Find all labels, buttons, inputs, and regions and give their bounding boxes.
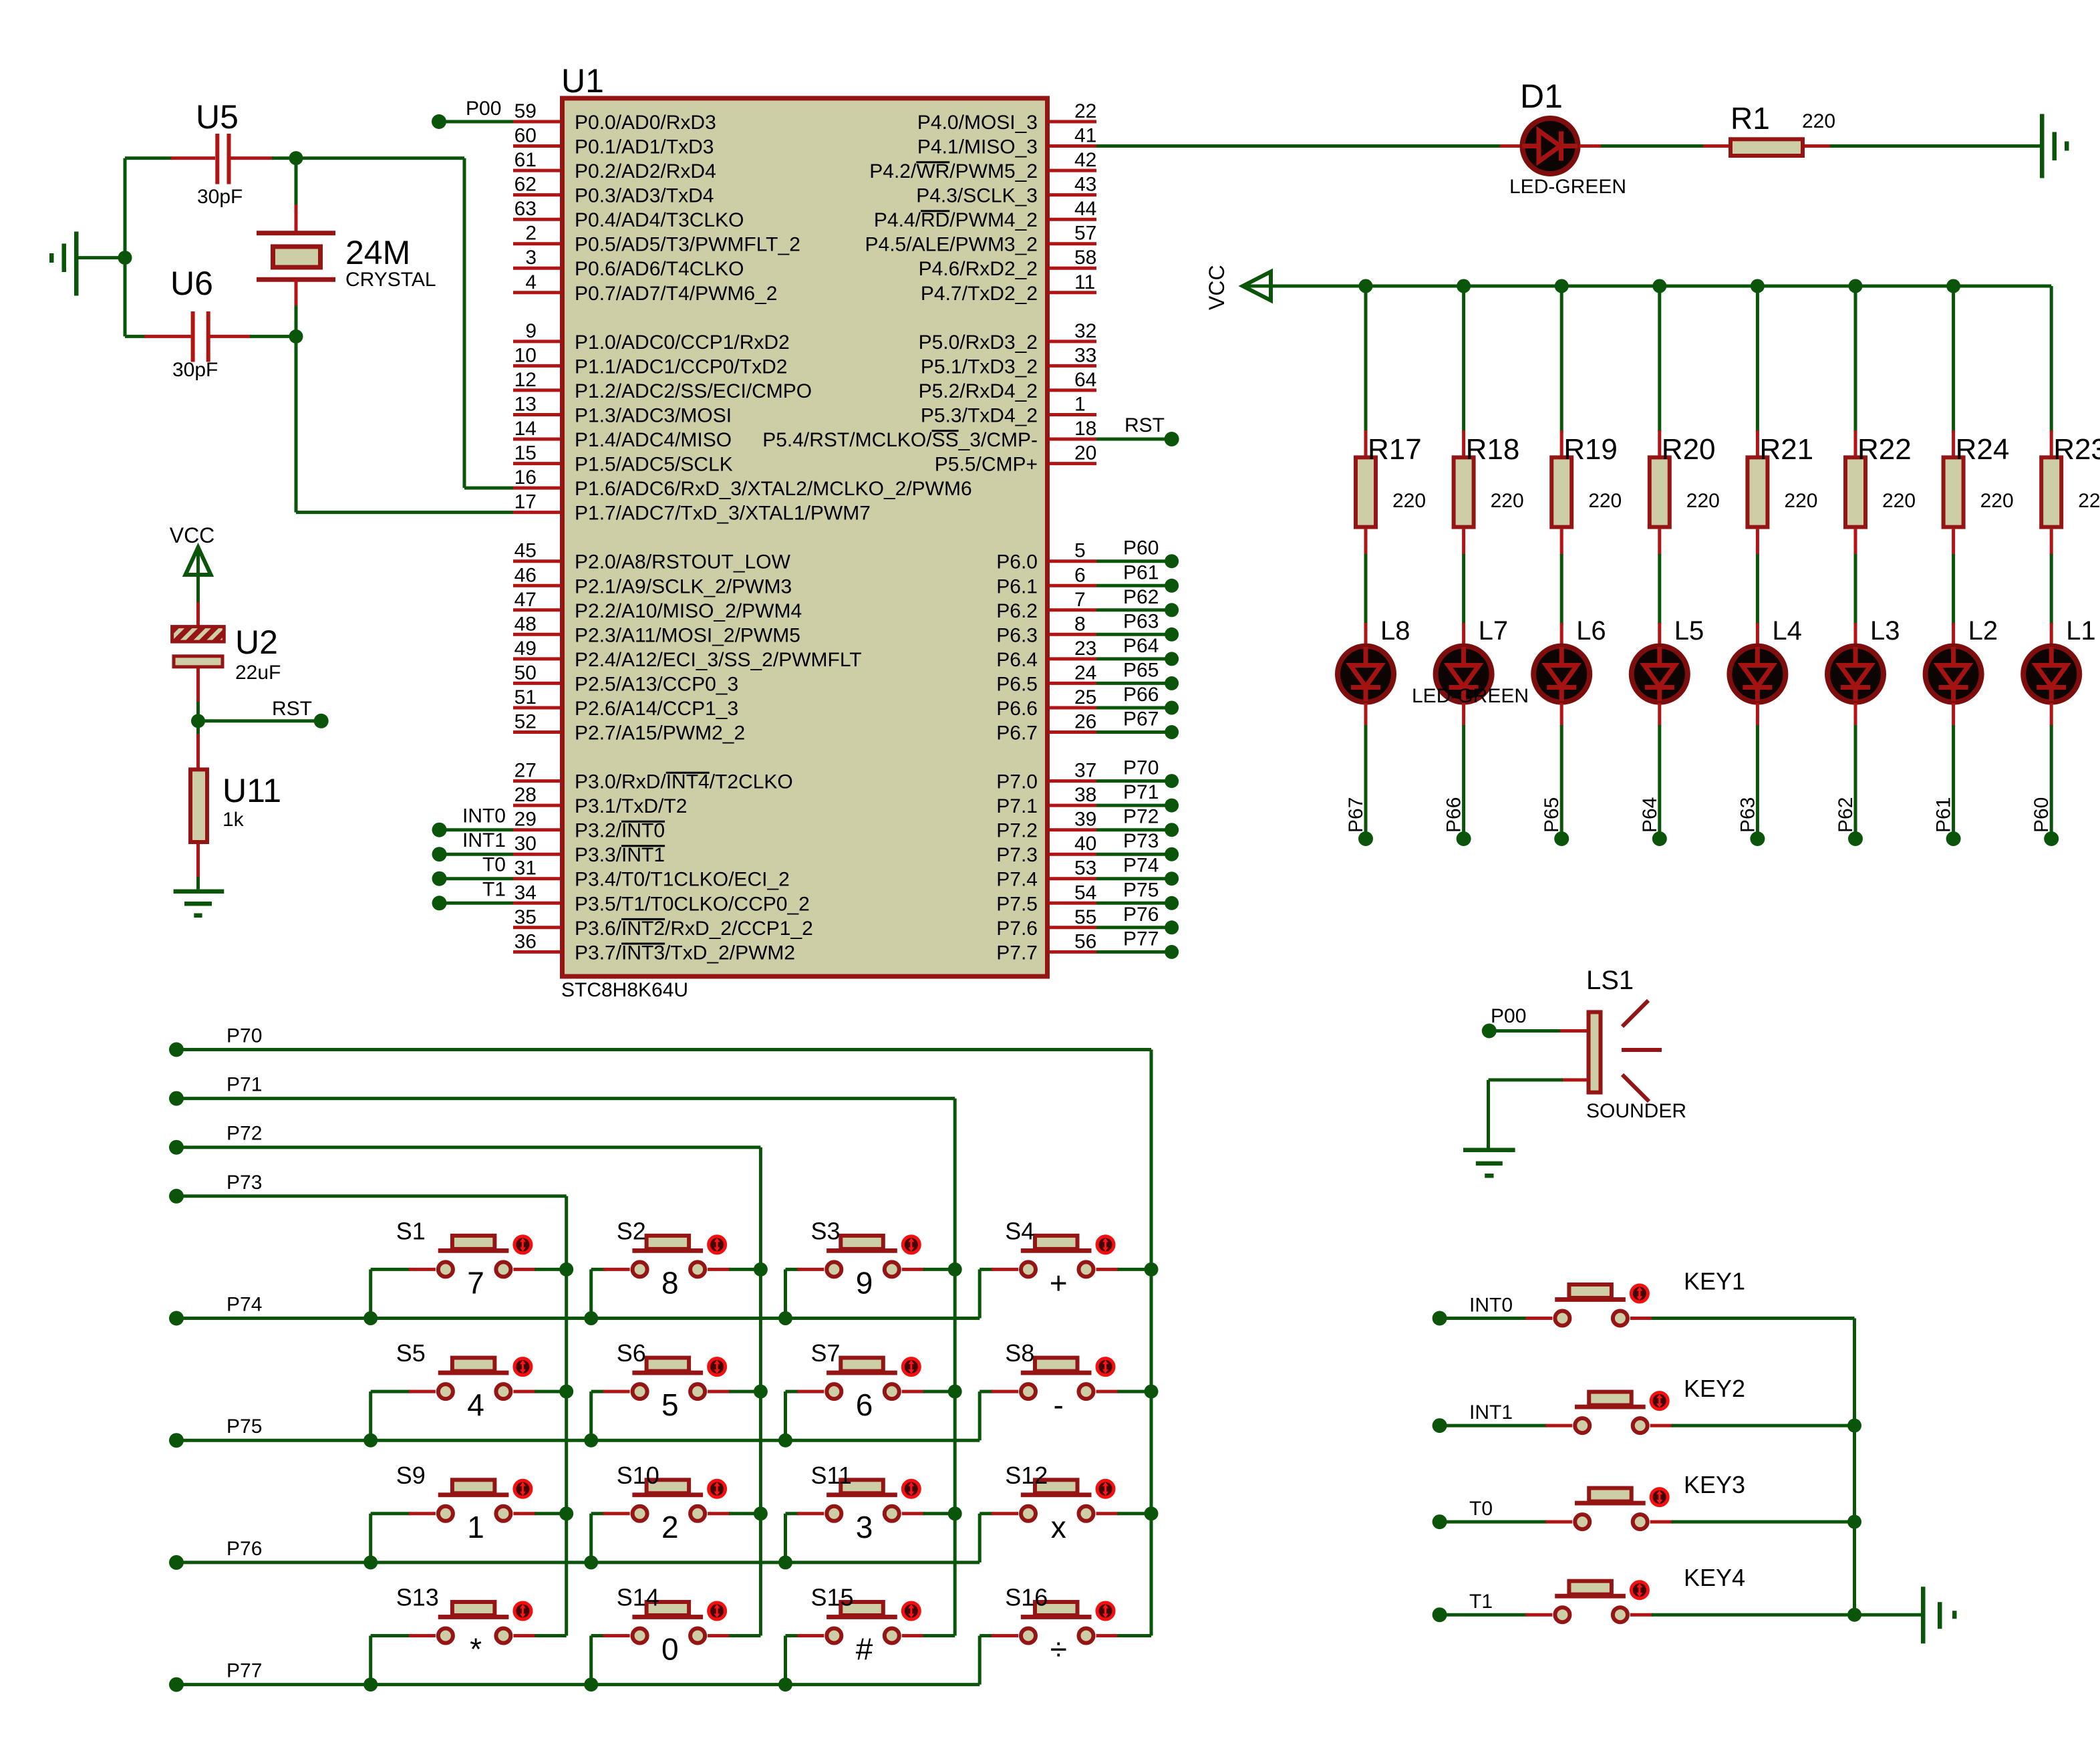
svg-text:P2.7/A15/PWM2_2: P2.7/A15/PWM2_2 bbox=[575, 722, 745, 745]
svg-text:52: 52 bbox=[514, 711, 537, 733]
svg-text:45: 45 bbox=[514, 540, 537, 562]
svg-text:L3: L3 bbox=[1870, 616, 1900, 646]
svg-text:3: 3 bbox=[525, 247, 537, 269]
svg-text:220: 220 bbox=[1882, 490, 1916, 512]
svg-text:STC8H8K64U: STC8H8K64U bbox=[561, 979, 688, 1001]
svg-text:P62: P62 bbox=[1835, 797, 1857, 833]
svg-text:U5: U5 bbox=[196, 98, 239, 136]
svg-text:P1.3/ADC3/MOSI: P1.3/ADC3/MOSI bbox=[575, 405, 732, 427]
svg-text:LED-GREEN: LED-GREEN bbox=[1412, 685, 1529, 707]
svg-text:P3.1/TxD/T2: P3.1/TxD/T2 bbox=[575, 795, 687, 817]
svg-text:220: 220 bbox=[1392, 490, 1426, 512]
svg-text:P3.0/RxD/INT4/T2CLKO: P3.0/RxD/INT4/T2CLKO bbox=[575, 771, 793, 793]
svg-text:P0.7/AD7/T4/PWM6_2: P0.7/AD7/T4/PWM6_2 bbox=[575, 283, 777, 305]
svg-text:P1.7/ADC7/TxD_3/XTAL1/PWM7: P1.7/ADC7/TxD_3/XTAL1/PWM7 bbox=[575, 503, 871, 525]
svg-text:x: x bbox=[1051, 1510, 1066, 1544]
svg-text:P2.5/A13/CCP0_3: P2.5/A13/CCP0_3 bbox=[575, 673, 738, 695]
svg-text:R17: R17 bbox=[1368, 433, 1422, 466]
svg-text:9: 9 bbox=[856, 1265, 873, 1300]
svg-text:220: 220 bbox=[1686, 490, 1720, 512]
svg-text:24: 24 bbox=[1074, 662, 1096, 684]
svg-text:40: 40 bbox=[1074, 833, 1096, 855]
svg-text:S8: S8 bbox=[1005, 1339, 1034, 1367]
svg-text:P1.0/ADC0/CCP1/RxD2: P1.0/ADC0/CCP1/RxD2 bbox=[575, 331, 790, 354]
svg-text:P2.6/A14/CCP1_3: P2.6/A14/CCP1_3 bbox=[575, 698, 738, 720]
svg-text:S15: S15 bbox=[811, 1584, 854, 1611]
svg-text:P7.5: P7.5 bbox=[996, 893, 1038, 915]
svg-text:P0.6/AD6/T4CLKO: P0.6/AD6/T4CLKO bbox=[575, 258, 744, 280]
svg-text:S11: S11 bbox=[811, 1462, 852, 1489]
svg-text:P60: P60 bbox=[1123, 537, 1159, 559]
svg-text:P76: P76 bbox=[1123, 904, 1159, 926]
svg-text:P65: P65 bbox=[1541, 797, 1563, 833]
svg-text:P75: P75 bbox=[227, 1415, 262, 1438]
svg-text:1: 1 bbox=[1074, 394, 1086, 416]
svg-text:47: 47 bbox=[514, 589, 537, 611]
svg-text:P73: P73 bbox=[227, 1172, 262, 1194]
svg-text:P7.1: P7.1 bbox=[996, 795, 1038, 817]
svg-text:P2.2/A10/MISO_2/PWM4: P2.2/A10/MISO_2/PWM4 bbox=[575, 600, 802, 622]
svg-text:R23: R23 bbox=[2053, 433, 2100, 466]
svg-text:43: 43 bbox=[1074, 174, 1096, 196]
svg-text:S6: S6 bbox=[617, 1339, 646, 1367]
svg-text:16: 16 bbox=[514, 466, 537, 489]
svg-text:P63: P63 bbox=[1737, 797, 1759, 833]
svg-text:P61: P61 bbox=[1123, 561, 1159, 583]
svg-text:P5.1/TxD3_2: P5.1/TxD3_2 bbox=[921, 356, 1038, 378]
svg-text:INT0: INT0 bbox=[1469, 1295, 1513, 1317]
svg-text:SOUNDER: SOUNDER bbox=[1586, 1100, 1686, 1122]
svg-text:9: 9 bbox=[525, 320, 537, 342]
svg-text:P73: P73 bbox=[1123, 830, 1159, 852]
svg-text:INT0: INT0 bbox=[462, 805, 506, 827]
svg-text:220: 220 bbox=[1802, 110, 1835, 132]
svg-text:R22: R22 bbox=[1857, 433, 1912, 466]
svg-text:63: 63 bbox=[514, 198, 537, 220]
svg-text:31: 31 bbox=[514, 857, 537, 879]
svg-text:KEY2: KEY2 bbox=[1684, 1375, 1745, 1402]
svg-text:23: 23 bbox=[1074, 638, 1096, 660]
svg-text:P0.5/AD5/T3/PWMFLT_2: P0.5/AD5/T3/PWMFLT_2 bbox=[575, 234, 800, 256]
svg-text:29: 29 bbox=[514, 809, 537, 831]
svg-text:P72: P72 bbox=[1123, 806, 1159, 828]
svg-text:L1: L1 bbox=[2066, 616, 2096, 646]
svg-text:P0.1/AD1/TxD3: P0.1/AD1/TxD3 bbox=[575, 136, 714, 158]
svg-text:2: 2 bbox=[661, 1510, 679, 1544]
svg-text:35: 35 bbox=[514, 906, 537, 928]
svg-text:P6.6: P6.6 bbox=[996, 698, 1038, 720]
svg-text:P5.4/RST/MCLKO/SS_3/CMP-: P5.4/RST/MCLKO/SS_3/CMP- bbox=[762, 429, 1038, 451]
svg-text:P4.1/MISO_3: P4.1/MISO_3 bbox=[917, 136, 1038, 158]
svg-text:51: 51 bbox=[514, 686, 537, 708]
svg-text:P0.2/AD2/RxD4: P0.2/AD2/RxD4 bbox=[575, 160, 716, 182]
svg-text:KEY1: KEY1 bbox=[1684, 1268, 1745, 1295]
svg-text:L6: L6 bbox=[1576, 616, 1606, 646]
svg-text:P7.3: P7.3 bbox=[996, 844, 1038, 866]
svg-text:48: 48 bbox=[514, 613, 537, 635]
svg-text:46: 46 bbox=[514, 564, 537, 586]
svg-text:7: 7 bbox=[467, 1265, 484, 1300]
svg-text:P7.7: P7.7 bbox=[996, 942, 1038, 964]
svg-text:15: 15 bbox=[514, 442, 537, 464]
svg-text:P75: P75 bbox=[1123, 879, 1159, 901]
svg-text:INT1: INT1 bbox=[1469, 1401, 1513, 1424]
svg-text:18: 18 bbox=[1074, 418, 1096, 440]
svg-text:220: 220 bbox=[1980, 490, 2014, 512]
svg-text:53: 53 bbox=[1074, 857, 1096, 879]
svg-text:22uF: 22uF bbox=[235, 662, 281, 684]
svg-text:P0.3/AD3/TxD4: P0.3/AD3/TxD4 bbox=[575, 185, 714, 207]
svg-text:54: 54 bbox=[1074, 882, 1096, 904]
svg-text:44: 44 bbox=[1074, 198, 1096, 220]
svg-text:P66: P66 bbox=[1123, 684, 1159, 706]
svg-text:P1.2/ADC2/SS/ECI/CMPO: P1.2/ADC2/SS/ECI/CMPO bbox=[575, 380, 812, 402]
svg-text:P74: P74 bbox=[1123, 855, 1159, 877]
svg-text:*: * bbox=[470, 1632, 482, 1667]
svg-text:58: 58 bbox=[1074, 247, 1096, 269]
svg-text:P4.2/WR/PWM5_2: P4.2/WR/PWM5_2 bbox=[869, 160, 1038, 182]
svg-text:3: 3 bbox=[856, 1510, 873, 1544]
svg-text:÷: ÷ bbox=[1050, 1632, 1067, 1667]
svg-text:P4.3/SCLK_3: P4.3/SCLK_3 bbox=[916, 185, 1038, 207]
svg-text:RST: RST bbox=[272, 698, 312, 720]
svg-text:27: 27 bbox=[514, 760, 537, 782]
svg-text:57: 57 bbox=[1074, 223, 1096, 245]
svg-text:30pF: 30pF bbox=[172, 359, 218, 381]
svg-text:P67: P67 bbox=[1123, 708, 1159, 730]
svg-text:P77: P77 bbox=[227, 1660, 262, 1682]
svg-text:8: 8 bbox=[661, 1265, 679, 1300]
svg-text:R19: R19 bbox=[1563, 433, 1618, 466]
svg-text:P2.0/A8/RSTOUT_LOW: P2.0/A8/RSTOUT_LOW bbox=[575, 551, 791, 573]
svg-text:1k: 1k bbox=[222, 809, 245, 831]
svg-text:U1: U1 bbox=[561, 62, 604, 100]
svg-text:33: 33 bbox=[1074, 344, 1096, 366]
svg-text:P76: P76 bbox=[227, 1538, 262, 1560]
svg-text:P71: P71 bbox=[1123, 781, 1159, 803]
svg-text:P60: P60 bbox=[2031, 797, 2053, 833]
svg-text:42: 42 bbox=[1074, 149, 1096, 171]
svg-text:P66: P66 bbox=[1443, 797, 1465, 833]
svg-text:T1: T1 bbox=[1469, 1591, 1493, 1613]
svg-text:P6.2: P6.2 bbox=[996, 600, 1038, 622]
svg-text:R21: R21 bbox=[1759, 433, 1813, 466]
svg-text:P3.3/INT1: P3.3/INT1 bbox=[575, 844, 665, 866]
svg-text:R24: R24 bbox=[1956, 433, 2010, 466]
svg-text:+: + bbox=[1050, 1265, 1068, 1300]
svg-text:12: 12 bbox=[514, 369, 537, 391]
svg-text:7: 7 bbox=[1074, 589, 1086, 611]
svg-text:P71: P71 bbox=[227, 1074, 262, 1096]
svg-text:T1: T1 bbox=[482, 878, 506, 900]
svg-text:62: 62 bbox=[514, 174, 537, 196]
svg-text:L5: L5 bbox=[1674, 616, 1704, 646]
svg-text:VCC: VCC bbox=[1205, 265, 1229, 310]
svg-text:P6.0: P6.0 bbox=[996, 551, 1038, 573]
svg-text:34: 34 bbox=[514, 882, 537, 904]
svg-text:P3.4/T0/T1CLKO/ECI_2: P3.4/T0/T1CLKO/ECI_2 bbox=[575, 869, 790, 891]
svg-text:T0: T0 bbox=[482, 854, 506, 876]
svg-text:36: 36 bbox=[514, 930, 537, 952]
svg-text:P6.1: P6.1 bbox=[996, 575, 1038, 597]
svg-text:17: 17 bbox=[514, 491, 537, 513]
svg-text:11: 11 bbox=[1074, 271, 1095, 293]
svg-text:2: 2 bbox=[525, 223, 537, 245]
svg-text:61: 61 bbox=[514, 149, 537, 171]
svg-text:P4.7/TxD2_2: P4.7/TxD2_2 bbox=[921, 283, 1038, 305]
svg-text:S1: S1 bbox=[396, 1217, 426, 1244]
svg-text:P62: P62 bbox=[1123, 586, 1159, 608]
svg-text:64: 64 bbox=[1074, 369, 1096, 391]
svg-text:P72: P72 bbox=[227, 1123, 262, 1145]
svg-text:P3.5/T1/T0CLKO/CCP0_2: P3.5/T1/T0CLKO/CCP0_2 bbox=[575, 893, 810, 915]
svg-text:220: 220 bbox=[2078, 490, 2100, 512]
svg-text:5: 5 bbox=[661, 1387, 679, 1422]
svg-text:VCC: VCC bbox=[170, 523, 215, 547]
svg-text:P64: P64 bbox=[1123, 635, 1159, 657]
svg-text:P3.6/INT2/RxD_2/CCP1_2: P3.6/INT2/RxD_2/CCP1_2 bbox=[575, 918, 813, 940]
svg-text:P65: P65 bbox=[1123, 659, 1159, 681]
svg-text:8: 8 bbox=[1074, 613, 1086, 635]
svg-text:P3.7/INT3/TxD_2/PWM2: P3.7/INT3/TxD_2/PWM2 bbox=[575, 942, 795, 964]
svg-text:P61: P61 bbox=[1933, 797, 1955, 833]
svg-text:30: 30 bbox=[514, 833, 537, 855]
svg-text:P2.1/A9/SCLK_2/PWM3: P2.1/A9/SCLK_2/PWM3 bbox=[575, 575, 792, 597]
svg-text:32: 32 bbox=[1074, 320, 1096, 342]
svg-text:50: 50 bbox=[514, 662, 537, 684]
svg-text:P4.0/MOSI_3: P4.0/MOSI_3 bbox=[917, 112, 1038, 134]
svg-text:4: 4 bbox=[525, 271, 537, 293]
svg-text:P6.7: P6.7 bbox=[996, 722, 1038, 745]
svg-text:0: 0 bbox=[661, 1632, 679, 1667]
svg-text:P0.4/AD4/T3CLKO: P0.4/AD4/T3CLKO bbox=[575, 209, 744, 231]
svg-text:P74: P74 bbox=[227, 1294, 262, 1316]
svg-text:KEY4: KEY4 bbox=[1684, 1564, 1745, 1591]
svg-text:R20: R20 bbox=[1662, 433, 1716, 466]
svg-text:D1: D1 bbox=[1520, 78, 1563, 115]
svg-text:LS1: LS1 bbox=[1586, 966, 1634, 995]
svg-text:S9: S9 bbox=[396, 1462, 426, 1489]
svg-text:41: 41 bbox=[1074, 125, 1096, 147]
svg-text:24M: 24M bbox=[345, 234, 410, 271]
svg-text:L8: L8 bbox=[1380, 616, 1410, 646]
svg-text:P6.5: P6.5 bbox=[996, 673, 1038, 695]
svg-text:220: 220 bbox=[1588, 490, 1622, 512]
svg-text:U2: U2 bbox=[235, 624, 278, 661]
svg-text:P5.5/CMP+: P5.5/CMP+ bbox=[935, 454, 1038, 476]
svg-text:P00: P00 bbox=[1491, 1005, 1526, 1027]
svg-text:P3.2/INT0: P3.2/INT0 bbox=[575, 820, 665, 842]
svg-text:38: 38 bbox=[1074, 784, 1096, 806]
svg-text:P4.6/RxD2_2: P4.6/RxD2_2 bbox=[919, 258, 1038, 280]
svg-text:P1.5/ADC5/SCLK: P1.5/ADC5/SCLK bbox=[575, 454, 733, 476]
svg-text:S14: S14 bbox=[617, 1584, 659, 1611]
svg-text:10: 10 bbox=[514, 344, 537, 366]
svg-text:60: 60 bbox=[514, 125, 537, 147]
svg-text:P64: P64 bbox=[1639, 797, 1661, 833]
svg-text:55: 55 bbox=[1074, 906, 1096, 928]
svg-text:28: 28 bbox=[514, 784, 537, 806]
svg-text:P2.3/A11/MOSI_2/PWM5: P2.3/A11/MOSI_2/PWM5 bbox=[575, 624, 800, 646]
svg-text:39: 39 bbox=[1074, 809, 1096, 831]
svg-text:P7.0: P7.0 bbox=[996, 771, 1038, 793]
svg-text:L7: L7 bbox=[1479, 616, 1509, 646]
svg-text:S13: S13 bbox=[396, 1584, 439, 1611]
svg-text:37: 37 bbox=[1074, 760, 1096, 782]
svg-text:S7: S7 bbox=[811, 1339, 841, 1367]
svg-text:S2: S2 bbox=[617, 1217, 646, 1244]
svg-text:49: 49 bbox=[514, 638, 537, 660]
svg-text:26: 26 bbox=[1074, 711, 1096, 733]
svg-text:14: 14 bbox=[514, 418, 537, 440]
svg-text:22: 22 bbox=[1074, 100, 1096, 122]
svg-text:INT1: INT1 bbox=[462, 829, 506, 851]
svg-text:-: - bbox=[1054, 1387, 1064, 1422]
svg-text:U11: U11 bbox=[222, 772, 281, 809]
svg-text:P1.1/ADC1/CCP0/TxD2: P1.1/ADC1/CCP0/TxD2 bbox=[575, 356, 787, 378]
svg-text:P70: P70 bbox=[1123, 757, 1159, 779]
svg-text:P4.4/RD/PWM4_2: P4.4/RD/PWM4_2 bbox=[874, 209, 1038, 231]
svg-text:P7.6: P7.6 bbox=[996, 918, 1038, 940]
svg-text:S12: S12 bbox=[1005, 1462, 1048, 1489]
svg-text:S5: S5 bbox=[396, 1339, 426, 1367]
svg-text:R18: R18 bbox=[1466, 433, 1520, 466]
svg-text:P7.4: P7.4 bbox=[996, 869, 1038, 891]
svg-text:P63: P63 bbox=[1123, 610, 1159, 632]
svg-text:30pF: 30pF bbox=[197, 186, 243, 208]
svg-text:P6.3: P6.3 bbox=[996, 624, 1038, 646]
svg-text:RST: RST bbox=[1124, 414, 1165, 436]
svg-text:13: 13 bbox=[514, 394, 537, 416]
svg-text:R1: R1 bbox=[1731, 101, 1770, 136]
svg-text:L4: L4 bbox=[1772, 616, 1802, 646]
svg-text:P5.2/RxD4_2: P5.2/RxD4_2 bbox=[919, 380, 1038, 402]
svg-text:P0.0/AD0/RxD3: P0.0/AD0/RxD3 bbox=[575, 112, 716, 134]
svg-text:P4.5/ALE/PWM3_2: P4.5/ALE/PWM3_2 bbox=[865, 234, 1038, 256]
svg-text:S16: S16 bbox=[1005, 1584, 1048, 1611]
svg-text:56: 56 bbox=[1074, 930, 1096, 952]
svg-text:220: 220 bbox=[1784, 490, 1817, 512]
svg-text:6: 6 bbox=[1074, 564, 1086, 586]
svg-text:P7.2: P7.2 bbox=[996, 820, 1038, 842]
svg-text:L2: L2 bbox=[1968, 616, 1998, 646]
svg-text:P2.4/A12/ECI_3/SS_2/PWMFLT: P2.4/A12/ECI_3/SS_2/PWMFLT bbox=[575, 649, 862, 671]
svg-text:P1.6/ADC6/RxD_3/XTAL2/MCLKO_2/: P1.6/ADC6/RxD_3/XTAL2/MCLKO_2/PWM6 bbox=[575, 478, 972, 500]
svg-text:P5.0/RxD3_2: P5.0/RxD3_2 bbox=[919, 331, 1038, 354]
svg-text:U6: U6 bbox=[170, 265, 213, 302]
svg-text:1: 1 bbox=[467, 1510, 484, 1544]
svg-text:#: # bbox=[856, 1632, 873, 1667]
svg-text:T0: T0 bbox=[1469, 1498, 1493, 1520]
svg-text:P1.4/ADC4/MISO: P1.4/ADC4/MISO bbox=[575, 429, 732, 451]
svg-text:25: 25 bbox=[1074, 686, 1096, 708]
svg-text:CRYSTAL: CRYSTAL bbox=[345, 269, 436, 291]
svg-text:S4: S4 bbox=[1005, 1217, 1034, 1244]
svg-text:P6.4: P6.4 bbox=[996, 649, 1038, 671]
svg-text:6: 6 bbox=[856, 1387, 873, 1422]
svg-text:220: 220 bbox=[1491, 490, 1524, 512]
svg-text:P00: P00 bbox=[466, 98, 501, 120]
svg-text:20: 20 bbox=[1074, 442, 1096, 464]
svg-text:P70: P70 bbox=[227, 1025, 262, 1047]
svg-text:S3: S3 bbox=[811, 1217, 841, 1244]
svg-text:4: 4 bbox=[467, 1387, 484, 1422]
svg-text:KEY3: KEY3 bbox=[1684, 1471, 1745, 1498]
svg-text:5: 5 bbox=[1074, 540, 1086, 562]
svg-text:P77: P77 bbox=[1123, 928, 1159, 950]
svg-text:LED-GREEN: LED-GREEN bbox=[1509, 176, 1626, 198]
svg-text:P67: P67 bbox=[1345, 797, 1367, 833]
svg-text:S10: S10 bbox=[617, 1462, 659, 1489]
svg-text:59: 59 bbox=[514, 100, 537, 122]
svg-text:P5.3/TxD4_2: P5.3/TxD4_2 bbox=[921, 405, 1038, 427]
